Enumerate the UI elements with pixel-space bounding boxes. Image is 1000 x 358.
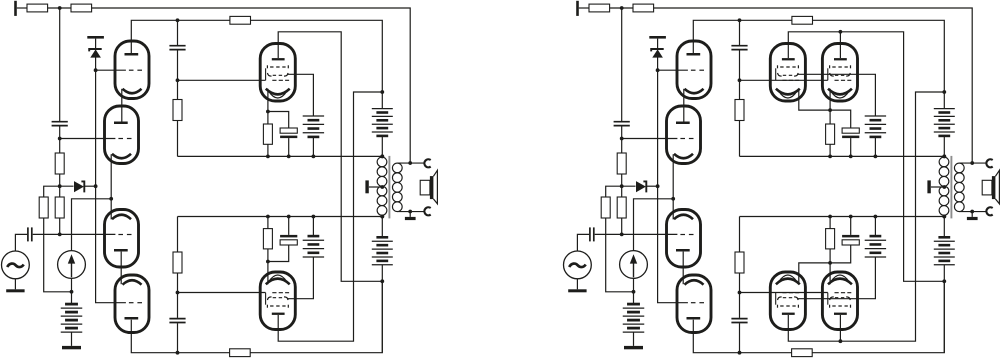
wire divider-col-a L xyxy=(59,8,61,121)
node primary-top R xyxy=(942,155,946,159)
wire coupling-top-a R xyxy=(739,20,741,45)
node grid1-tap R xyxy=(656,68,660,72)
resistor RR9 xyxy=(735,100,744,121)
wire divider-col-b L xyxy=(59,126,61,153)
pentode VR6a xyxy=(770,272,805,330)
ground source R xyxy=(568,289,586,292)
wire divider-col-c R xyxy=(621,174,623,197)
node top-rail L xyxy=(58,6,62,10)
wire coupling-bot-c R xyxy=(739,323,741,353)
resistor RL9 xyxy=(173,100,182,121)
node grid3-tap R xyxy=(620,233,624,237)
wire screen6 R xyxy=(797,257,875,299)
wire coupling-bot-b L xyxy=(177,273,179,318)
resistor RL1 xyxy=(27,4,48,12)
wire VL2-grid L xyxy=(60,138,116,140)
transformer core L xyxy=(388,156,390,219)
jack JL1 xyxy=(424,159,430,167)
wire secondary-bottom L xyxy=(397,211,425,213)
wire coupling-top-b L xyxy=(177,50,179,99)
wire feedback-rail R xyxy=(654,8,973,163)
zener diode DR1 xyxy=(651,49,664,58)
input terminal L1 xyxy=(14,1,17,16)
resistor RL5 xyxy=(55,197,64,218)
wire cathode5-cap L xyxy=(268,112,289,129)
wire top-rail-a R xyxy=(579,7,589,9)
wire zener-stem-a R xyxy=(657,39,659,49)
battery BR5 xyxy=(934,217,955,353)
resistor RR3 xyxy=(792,16,813,24)
pentode VR6b xyxy=(822,272,857,330)
wire top-rail-a L xyxy=(17,7,27,9)
node primary-bottom R xyxy=(942,215,946,219)
wire VR6b-cathode R xyxy=(829,249,831,284)
resistor RL12 xyxy=(263,217,272,262)
wire coupling-bot-a R xyxy=(739,217,741,253)
transformer TL1 primary xyxy=(377,157,387,215)
node grid3-tap L xyxy=(58,233,62,237)
node cathode23 L xyxy=(109,197,113,201)
wire current-source-top L xyxy=(72,199,112,251)
node secondary-bottom L xyxy=(408,210,412,214)
wire secondary-top L xyxy=(397,162,425,164)
wire cathode5-cap R xyxy=(830,110,851,128)
signal source GL1 xyxy=(2,251,30,279)
resistor RR11 xyxy=(826,124,835,156)
wire bias-row-a R xyxy=(606,186,636,197)
wire source-top L xyxy=(15,234,27,251)
resistor RL4 xyxy=(55,153,64,174)
wire secondary-bottom R xyxy=(959,211,987,213)
triode VR3 xyxy=(667,210,701,268)
nodes mid-rail-bottom R xyxy=(828,215,946,219)
battery BR1 xyxy=(623,292,645,346)
node secondary-bottom R xyxy=(970,210,974,214)
pentode VL6 xyxy=(260,272,295,330)
node cathode6 L xyxy=(266,260,270,264)
battery BR4 xyxy=(934,92,955,156)
transformer core R xyxy=(950,156,952,219)
node grid2-tap L xyxy=(58,137,62,141)
resistor RR4 xyxy=(617,153,626,174)
wire VR5a-cathode R xyxy=(799,89,830,110)
speaker LSL1 xyxy=(420,170,437,204)
input terminal R1 xyxy=(576,1,579,16)
wire VL1-plate-lead L xyxy=(131,20,230,53)
resistor RR6 xyxy=(601,197,610,218)
ground battery L xyxy=(62,346,81,349)
wire coupling-top-c L xyxy=(177,121,179,157)
resistor RL3 xyxy=(230,16,251,24)
pentode VR5a xyxy=(770,44,805,102)
capacitor CR3 xyxy=(731,46,747,50)
wire VL5-cathode L xyxy=(267,89,269,112)
wire coupling-top-b R xyxy=(739,50,741,99)
terminal zener-top L xyxy=(87,36,104,39)
wire VR6-grid R xyxy=(740,292,828,294)
node primary-top L xyxy=(380,155,384,159)
wire VL6-plate L xyxy=(278,92,382,341)
node grid6-tap L xyxy=(176,291,180,295)
transformer TR1 primary xyxy=(939,157,949,215)
node secondary-top L xyxy=(408,161,412,165)
node source-bottom L xyxy=(70,290,74,294)
wire VR6a-cathode R xyxy=(799,263,830,284)
wire screen5 L xyxy=(287,74,313,116)
wire VL4-plate-lead L xyxy=(131,320,229,353)
capacitor CL4 xyxy=(169,319,185,323)
node cathode23 R xyxy=(671,197,675,201)
triode VR1 xyxy=(677,41,711,99)
resistor RR5 xyxy=(617,197,626,218)
battery BR2 xyxy=(865,116,886,156)
pentode VL5 xyxy=(260,44,295,102)
wire bottom-rail-b L xyxy=(250,281,382,352)
node source-bottom R xyxy=(632,290,636,294)
wire coupling-bot-b R xyxy=(739,273,741,318)
ground secondary R xyxy=(967,212,978,221)
wire VL1-grid L xyxy=(96,69,126,71)
nodes mid-rail-top L xyxy=(266,155,384,159)
wire zener-stem-a L xyxy=(95,39,97,49)
node diode-row-tap R xyxy=(620,184,624,188)
node plate6b R xyxy=(839,339,843,343)
resistor RR1 xyxy=(589,4,610,12)
terminal primary-tap L xyxy=(365,180,368,193)
ground battery R xyxy=(624,346,643,349)
wire VR1-cathode R xyxy=(683,89,685,122)
wire current-source-top R xyxy=(634,199,674,251)
jack JR1 xyxy=(986,159,992,167)
pentode VR5b xyxy=(822,44,857,102)
battery BL2 xyxy=(303,116,324,156)
wire current-source-bottom L xyxy=(71,278,73,291)
ground secondary L xyxy=(405,212,416,221)
capacitor CR6 xyxy=(842,217,859,246)
capacitor CR1 xyxy=(614,122,630,126)
wire divider-col-d R xyxy=(621,218,623,234)
battery BR3 xyxy=(865,217,886,258)
wire divider-col-b R xyxy=(621,126,623,153)
wire top-rail-b L xyxy=(48,7,71,9)
node grid5-tap L xyxy=(176,78,180,82)
wire VR6-plate R xyxy=(788,92,944,341)
wire mid-rail-top R xyxy=(740,155,945,157)
capacitor CL2 xyxy=(28,227,32,241)
node battery-top L xyxy=(380,90,384,94)
node grid6-tap R xyxy=(738,291,742,295)
wire bias-row-b R xyxy=(646,185,657,187)
battery BL5 xyxy=(372,217,393,353)
wire bias-col L xyxy=(44,218,72,292)
node bottom-rail R xyxy=(738,351,742,355)
wire VR1-grid R xyxy=(658,69,688,71)
ground source L xyxy=(6,289,24,292)
wire feedback-rail L xyxy=(92,8,411,163)
triode VL3 xyxy=(105,210,139,268)
resistor RR12 xyxy=(826,217,835,249)
capacitor CL6 xyxy=(280,217,297,246)
wire source-gnd-stem R xyxy=(576,279,578,290)
battery BL3 xyxy=(303,217,324,258)
node lower-battery-tap R xyxy=(942,279,946,283)
wire VR5-grid R xyxy=(740,79,828,81)
wire bias-col R xyxy=(606,218,634,292)
capacitor CL5 xyxy=(280,128,297,156)
wire VL6-cathode L xyxy=(267,262,269,285)
signal source GR1 xyxy=(564,251,592,279)
wire bottom-rail-b R xyxy=(812,281,944,352)
wire VR3-grid R xyxy=(595,233,678,235)
wire screen5 R xyxy=(797,74,875,116)
wire VR5b-cathode R xyxy=(829,89,831,124)
node top-rail R xyxy=(620,6,624,10)
wire top-rail-b R xyxy=(610,7,633,9)
wire divider-col-d L xyxy=(59,218,61,234)
triode VR2 xyxy=(667,106,701,164)
wire VR2-cathode R xyxy=(672,154,674,219)
resistor RL10 xyxy=(173,252,182,273)
node plate-rail R xyxy=(738,18,742,22)
resistor RL6 xyxy=(39,197,48,218)
terminal primary-tap R xyxy=(927,180,930,193)
resistor RR2 xyxy=(633,4,654,12)
wire VR2-grid R xyxy=(622,138,678,140)
wire divider-col-a R xyxy=(621,8,623,121)
wire source-gnd-stem L xyxy=(14,279,16,290)
wire mid-rail-top L xyxy=(178,155,383,157)
wire VL5-grid L xyxy=(178,79,266,81)
wire primary-tap R xyxy=(931,186,944,188)
capacitor CR5 xyxy=(842,128,859,156)
wire VL1-cathode L xyxy=(121,89,123,122)
capacitor CL1 xyxy=(52,122,68,126)
node bottom-rail L xyxy=(176,351,180,355)
node cathode5 L xyxy=(266,110,270,114)
wire cathode6-cap L xyxy=(268,245,289,262)
zener diode DL1 xyxy=(89,49,102,58)
nodes mid-rail-bottom L xyxy=(266,215,384,219)
node primary-tap R xyxy=(942,185,946,189)
nodes mid-rail-top R xyxy=(828,155,946,159)
wire VR3-plate R xyxy=(682,252,684,285)
capacitor CR4 xyxy=(731,319,747,323)
wire coupling-top-a L xyxy=(177,20,179,45)
node grid2-tap R xyxy=(620,137,624,141)
wire VR5-plate R xyxy=(788,32,944,281)
node grid1-tap L xyxy=(94,68,98,72)
wire cathode6-cap R xyxy=(830,245,851,263)
wire bias-row-b L xyxy=(84,185,95,187)
node battery-top R xyxy=(942,90,946,94)
transformer TR1 secondary xyxy=(954,163,964,212)
node cathode6 R xyxy=(828,261,832,265)
wire coupling-top-c R xyxy=(739,121,741,157)
triode VR4 xyxy=(677,275,711,333)
zener diode DR2 xyxy=(636,181,646,192)
jack JL2 xyxy=(424,207,430,215)
node cathode5 R xyxy=(828,108,832,112)
wire VR1-plate-lead R xyxy=(693,20,792,53)
node grid5-tap R xyxy=(738,78,742,82)
resistor RL11 xyxy=(263,112,272,157)
wire plate-rail-b R xyxy=(813,20,945,92)
wire current-source-bottom R xyxy=(633,278,635,291)
triode VL4 xyxy=(115,275,149,333)
wire coupling-bot-a L xyxy=(177,217,179,253)
current source IL1 xyxy=(58,251,86,279)
resistor RL8 xyxy=(230,349,251,357)
speaker LSR1 xyxy=(982,170,999,204)
node plate5b R xyxy=(839,30,843,34)
wire zener-col L xyxy=(96,57,126,303)
capacitor CR2 xyxy=(590,227,594,241)
node zener-diode-junction R xyxy=(656,184,660,188)
node primary-bottom L xyxy=(380,215,384,219)
node primary-tap L xyxy=(380,185,384,189)
wire divider-col-c L xyxy=(59,174,61,197)
jack JR2 xyxy=(986,207,992,215)
resistor RR8 xyxy=(792,349,813,357)
wire secondary-top R xyxy=(959,162,987,164)
node lower-battery-tap L xyxy=(380,279,384,283)
node zener-diode-junction L xyxy=(94,184,98,188)
current source IR1 xyxy=(620,251,648,279)
zener diode DL2 xyxy=(74,181,84,192)
wire mid-rail-bottom L xyxy=(178,216,383,218)
resistor RL2 xyxy=(71,4,92,12)
battery BL1 xyxy=(61,292,83,346)
wire screen6 L xyxy=(287,257,313,299)
wire bias-row-a L xyxy=(44,186,74,197)
wire mid-rail-bottom R xyxy=(740,216,945,218)
wire plate-rail-b L xyxy=(251,20,383,92)
terminal zener-top R xyxy=(649,36,666,39)
node diode-row-tap L xyxy=(58,184,62,188)
wire VL5-plate L xyxy=(278,32,382,281)
transformer TL1 secondary xyxy=(392,163,402,212)
wire VL2-cathode L xyxy=(110,154,112,219)
triode VL2 xyxy=(105,106,139,164)
node plate-rail L xyxy=(176,18,180,22)
wire VL3-grid L xyxy=(33,233,116,235)
resistor RR10 xyxy=(735,252,744,273)
wire VL3-plate L xyxy=(120,252,122,285)
battery BL4 xyxy=(372,92,393,156)
wire coupling-bot-c L xyxy=(177,323,179,353)
wire VL6-grid L xyxy=(178,292,266,294)
wire primary-tap L xyxy=(369,186,382,188)
wire VR4-plate-lead R xyxy=(693,320,791,353)
triode VL1 xyxy=(115,41,149,99)
wire source-top R xyxy=(577,234,589,251)
capacitor CL3 xyxy=(169,46,185,50)
wire zener-col R xyxy=(658,57,688,303)
node secondary-top R xyxy=(970,161,974,165)
